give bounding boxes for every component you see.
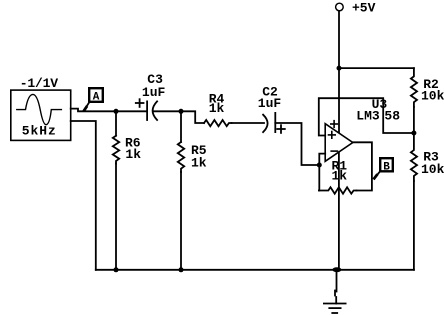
- op-amp U3: [325, 124, 353, 162]
- node ground rail junction: [333, 267, 342, 272]
- wire opamp ground pin: [338, 152, 340, 269]
- node A callout: [85, 103, 89, 109]
- ground: [336, 270, 338, 292]
- svg-text:-1/1V: -1/1V: [20, 76, 59, 91]
- resistor R1: [319, 187, 357, 193]
- node +5V junction: [337, 66, 342, 71]
- wire C3 right to node: [154, 110, 181, 112]
- svg-text:1uF: 1uF: [142, 85, 166, 100]
- resistor R2: [411, 68, 417, 107]
- wire source lower output: [71, 121, 96, 270]
- svg-text:1k: 1k: [332, 168, 348, 183]
- wire C2 to inverting node: [275, 123, 319, 165]
- node at R5 top: [179, 109, 184, 114]
- node R5 bottom: [179, 267, 184, 272]
- wire R3 bottom lead: [413, 181, 415, 270]
- svg-text:1k: 1k: [125, 147, 141, 162]
- wire noninverting input route: [319, 98, 414, 135]
- op-amp input minus: [331, 150, 337, 152]
- svg-text:10k: 10k: [421, 162, 444, 177]
- wire source upper output: [71, 109, 147, 112]
- C2 plus sign: [277, 128, 285, 130]
- svg-text:10k: 10k: [421, 88, 444, 103]
- svg-text:+5V: +5V: [352, 1, 376, 16]
- C3 plus sign: [136, 102, 144, 104]
- wire ground rail: [96, 269, 414, 271]
- node inverting junction: [317, 163, 322, 168]
- svg-text:1k: 1k: [191, 156, 207, 171]
- resistor R5: [180, 111, 182, 142]
- wire R1 to output: [353, 142, 372, 190]
- svg-text:B: B: [383, 162, 390, 174]
- node at R6 top: [114, 109, 119, 114]
- node R6 bottom: [114, 267, 119, 272]
- signal source box: [11, 90, 71, 140]
- svg-text:58: 58: [384, 109, 400, 124]
- node B callout: [375, 172, 379, 177]
- svg-text:5kHz: 5kHz: [22, 124, 56, 139]
- wire +5V rail to R2 top: [339, 67, 414, 69]
- svg-text:A: A: [93, 92, 100, 104]
- wire down to R1: [318, 165, 320, 191]
- resistor R3: [411, 133, 417, 181]
- resistor R4: [204, 120, 232, 126]
- +5V terminal: [336, 3, 344, 11]
- capacitor C3: [146, 101, 148, 120]
- capacitor C2: [263, 115, 268, 132]
- sine wave: [17, 94, 62, 124]
- wire R4 to C2: [232, 122, 265, 124]
- node R2/R3 junction: [411, 131, 416, 136]
- op-amp power plus: [331, 123, 338, 125]
- wire inverting stub: [319, 154, 325, 165]
- svg-text:1uF: 1uF: [258, 96, 282, 111]
- wire R2 bottom lead: [413, 107, 415, 133]
- op-amp input plus: [329, 134, 336, 136]
- wire node to R4: [181, 111, 204, 123]
- resistor R6: [115, 111, 117, 135]
- wire +5V stub down to opamp V+: [338, 11, 340, 133]
- svg-text:1k: 1k: [209, 101, 225, 116]
- svg-text:LM3: LM3: [356, 109, 380, 124]
